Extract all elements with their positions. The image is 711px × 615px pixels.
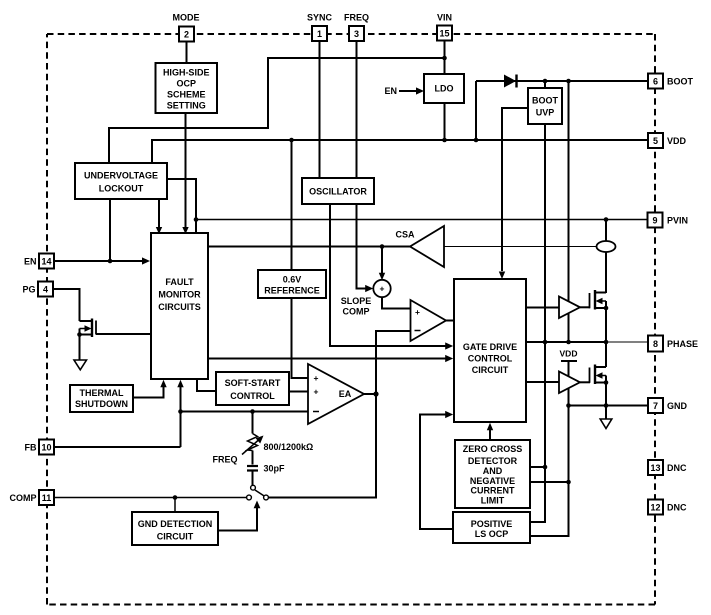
summer slope comp adder circle bbox=[373, 280, 390, 297]
svg-text:4: 4 bbox=[43, 284, 48, 294]
svg-text:0.6V: 0.6V bbox=[283, 274, 302, 284]
node BOOT rail to high-side driver junction bbox=[566, 79, 571, 84]
diode D1 bootstrap bbox=[504, 75, 517, 88]
block BOOT UVP bbox=[528, 88, 562, 124]
svg-text:SCHEME: SCHEME bbox=[167, 90, 206, 100]
svg-text:OSCILLATOR: OSCILLATOR bbox=[309, 186, 367, 196]
wire LS driver return to GND rail bbox=[568, 388, 570, 406]
wire LDO output to VDD rail bbox=[444, 103, 446, 140]
wire GATE DRIVE to HS driver bbox=[526, 307, 559, 309]
wire GND rail to GND pin 7 bbox=[569, 405, 649, 407]
pin 14 EN bbox=[24, 254, 54, 269]
wire EA output up to PWM comparator minus input bbox=[376, 331, 411, 394]
svg-text:LOCKOUT: LOCKOUT bbox=[99, 184, 144, 194]
svg-text:3: 3 bbox=[354, 29, 359, 39]
svg-text:PVIN: PVIN bbox=[667, 215, 688, 225]
block GND DETECTION CIRCUIT bbox=[132, 512, 218, 545]
wire FAULT MONITOR to PG MOSFET gate bbox=[96, 333, 151, 335]
node compensation branch junction bbox=[250, 409, 255, 414]
current sense element ellipse bbox=[597, 241, 616, 252]
pin 5 VDD bbox=[648, 133, 687, 148]
node ZC phase sense junction bbox=[543, 465, 548, 470]
node UVLO sense on PVIN line bbox=[194, 217, 199, 222]
pin 6 BOOT bbox=[648, 74, 694, 89]
block THERMAL SHUTDOWN bbox=[70, 385, 133, 412]
svg-text:CONTROL: CONTROL bbox=[468, 354, 513, 364]
ground symbol at PG MOSFET source bbox=[74, 360, 87, 370]
svg-text:VDD: VDD bbox=[560, 349, 578, 359]
transistor Q2 high-side MOSFET bbox=[590, 290, 609, 342]
label SLOPE COMP bbox=[341, 296, 372, 316]
block UNDERVOLTAGE LOCKOUT bbox=[75, 163, 167, 199]
svg-text:ZERO CROSS: ZERO CROSS bbox=[463, 444, 523, 454]
svg-text:FAULT: FAULT bbox=[165, 277, 194, 287]
svg-text:SETTING: SETTING bbox=[167, 101, 206, 111]
svg-text:FREQ: FREQ bbox=[212, 455, 237, 465]
node FB to EA minus junction bbox=[178, 409, 183, 414]
svg-text:5: 5 bbox=[653, 136, 658, 146]
svg-text:AND: AND bbox=[483, 466, 503, 476]
wire EN pin 14 to FAULT MONITOR with arrow bbox=[54, 257, 150, 264]
svg-text:15: 15 bbox=[439, 28, 449, 38]
svg-text:CONTROL: CONTROL bbox=[230, 391, 275, 401]
wire PVIN junction down to sense ellipse bbox=[605, 220, 607, 242]
svg-text:PG: PG bbox=[22, 284, 35, 294]
wire SYNC pin to OSCILLATOR bbox=[319, 41, 321, 178]
wire EA output down to switch bbox=[268, 394, 376, 498]
svg-text:800/1200kΩ: 800/1200kΩ bbox=[264, 442, 314, 452]
svg-text:PHASE: PHASE bbox=[667, 339, 698, 349]
block FAULT MONITOR CIRCUITS bbox=[151, 233, 208, 379]
svg-text:14: 14 bbox=[41, 256, 51, 266]
svg-text:POSITIVE: POSITIVE bbox=[471, 519, 513, 529]
wire summer to PWM comparator plus input bbox=[382, 297, 411, 308]
node diode branch on VDD rail bbox=[474, 138, 479, 143]
node BOOT UVP top junction bbox=[543, 79, 548, 84]
wire BOOT UVP left tap down into GATE DRIVE top bbox=[499, 108, 528, 279]
pin 1 SYNC bbox=[307, 12, 333, 41]
block 0.6V REFERENCE bbox=[258, 270, 326, 298]
wire LS driver output to gate bbox=[580, 381, 590, 383]
svg-text:EN: EN bbox=[384, 86, 397, 96]
wire VIN rail y128 to UVLO bbox=[109, 127, 269, 129]
svg-text:CIRCUIT: CIRCUIT bbox=[157, 532, 194, 542]
wire 0.6V reference to EA first plus input bbox=[292, 298, 309, 378]
svg-text:LIMIT: LIMIT bbox=[481, 495, 505, 505]
wire HIGH-SIDE OCP block to FAULT MONITOR top bbox=[182, 113, 188, 234]
svg-text:EN: EN bbox=[24, 256, 37, 266]
transistor Q1 PG open-drain MOSFET bbox=[77, 319, 96, 361]
svg-text:CURRENT: CURRENT bbox=[471, 486, 516, 496]
node EN line junction bbox=[108, 259, 113, 264]
svg-text:SOFT-START: SOFT-START bbox=[225, 378, 281, 388]
svg-text:+: + bbox=[415, 307, 420, 317]
node GND junction LS driver bbox=[566, 403, 571, 408]
pin 7 GND bbox=[648, 398, 688, 413]
ground symbol at GND rail bbox=[600, 406, 612, 429]
wire POSITIVE LS OCP to GATE DRIVE with arrow bbox=[420, 411, 453, 529]
pin 11 COMP bbox=[10, 490, 55, 505]
svg-text:LDO: LDO bbox=[435, 84, 454, 94]
svg-text:+: + bbox=[314, 373, 319, 383]
wire FAULT MONITOR to CSA output y246.5 bbox=[208, 246, 410, 248]
transistor Q3 low-side MOSFET bbox=[590, 342, 609, 406]
svg-text:UVP: UVP bbox=[536, 108, 555, 118]
node slope comp tap on CSA line bbox=[380, 244, 385, 249]
svg-text:8: 8 bbox=[653, 339, 658, 349]
node ZC negative current limit sense junction bbox=[566, 480, 571, 485]
node phase junction HS driver return bbox=[566, 340, 571, 345]
wire GND rail down to ZC and LS OCP sense bbox=[530, 406, 569, 537]
wire GND DETECTION to switch actuator arrow bbox=[218, 501, 260, 531]
pin 9 PVIN bbox=[648, 213, 689, 228]
op-amp EA error amplifier bbox=[308, 364, 364, 424]
node phase junction BOOT UVP bbox=[543, 340, 548, 345]
pin 12 DNC bbox=[648, 500, 687, 515]
svg-text:THERMAL: THERMAL bbox=[80, 388, 124, 398]
svg-text:11: 11 bbox=[42, 493, 52, 503]
svg-text:CIRCUITS: CIRCUITS bbox=[158, 302, 201, 312]
block HIGH-SIDE OCP SCHEME SETTING bbox=[156, 63, 218, 113]
node phase junction power FETs bbox=[604, 340, 609, 345]
wire BOOT UVP bottom down to phase node bbox=[544, 124, 546, 342]
wire BOOT rail y81 to BOOT pin 6 bbox=[476, 80, 648, 82]
svg-text:NEGATIVE: NEGATIVE bbox=[470, 476, 515, 486]
svg-text:LS OCP: LS OCP bbox=[475, 529, 509, 539]
IC boundary dashed box bbox=[47, 34, 655, 605]
svg-text:1: 1 bbox=[317, 29, 322, 39]
svg-text:SYNC: SYNC bbox=[307, 12, 333, 22]
wire BOOT rail into BOOT UVP top bbox=[544, 81, 546, 88]
svg-text:COMP: COMP bbox=[10, 493, 37, 503]
wire THERMAL SHUTDOWN to FAULT MONITOR with arrow bbox=[133, 380, 167, 398]
svg-text:10: 10 bbox=[41, 442, 51, 452]
block OSCILLATOR bbox=[302, 178, 374, 204]
wire SOFT-START to EA second plus input bbox=[289, 391, 308, 393]
wire FB pin 10 line bbox=[54, 446, 181, 448]
svg-text:HIGH-SIDE: HIGH-SIDE bbox=[163, 68, 210, 78]
wire ZERO CROSS block to GND sense line bbox=[530, 481, 569, 483]
wire UVLO bottom to EN line bbox=[109, 199, 111, 261]
svg-text:DETECTOR: DETECTOR bbox=[468, 456, 518, 466]
wire EA minus input line y411.5 bbox=[181, 411, 309, 413]
wire VIN rail drop x268 bbox=[267, 57, 269, 128]
svg-text:CSA: CSA bbox=[395, 230, 415, 240]
wire FREQ pin to OSCILLATOR bbox=[356, 41, 358, 178]
node GND detection tap on COMP line bbox=[173, 495, 178, 500]
svg-text:DNC: DNC bbox=[667, 463, 687, 473]
pin 15 VIN bbox=[437, 12, 452, 40]
buffer LS gate driver bbox=[559, 372, 580, 394]
pin 8 PHASE bbox=[648, 336, 698, 352]
svg-text:EA: EA bbox=[339, 389, 352, 399]
wire OSCILLATOR to slope comp summer with arrow bbox=[357, 204, 374, 292]
node VIN junction bbox=[442, 56, 447, 61]
wire BOOT rail down to HS driver top bbox=[568, 81, 570, 302]
block GATE DRIVE CONTROL CIRCUIT bbox=[454, 279, 526, 422]
wire GATE DRIVE to LS driver bbox=[526, 381, 559, 383]
svg-text:6: 6 bbox=[653, 76, 658, 86]
pin 2 MODE bbox=[173, 12, 200, 41]
wire phase to PHASE pin 8 bbox=[606, 341, 648, 343]
power symbol VDD for LS driver bbox=[560, 349, 578, 377]
svg-text:13: 13 bbox=[650, 463, 660, 473]
pin 3 FREQ bbox=[344, 12, 369, 41]
wire EA output stub bbox=[364, 393, 376, 395]
wire COMP pin 11 line bbox=[54, 497, 247, 499]
wire FB riser into FAULT MONITOR with arrow bbox=[177, 380, 183, 447]
block LDO bbox=[424, 74, 464, 103]
node GND junction LS FET source bbox=[604, 403, 609, 408]
pin 4 PG bbox=[22, 282, 53, 297]
resistor R1 800/1200k variable bbox=[242, 412, 264, 465]
switch S1 comp disconnect bbox=[247, 485, 269, 500]
capacitor C1 30pF bbox=[247, 466, 258, 485]
wire VIN pin down to LDO bbox=[444, 41, 446, 74]
svg-text:2: 2 bbox=[184, 29, 189, 39]
wire PG pin 4 to PG MOSFET drain bbox=[53, 289, 80, 321]
wire VDD to diode branch riser bbox=[475, 81, 477, 140]
wire UVLO bottom to FAULT MONITOR top arrow bbox=[156, 199, 162, 234]
wire PVIN line y219.5 to PVIN pin 9 bbox=[196, 219, 648, 221]
wire OSCILLATOR down and into GATE DRIVE with arrow bbox=[330, 204, 453, 350]
wire phase sense down to POSITIVE LS OCP bbox=[530, 342, 545, 522]
wire CSA tap down into slope comp summer with arrow bbox=[379, 247, 385, 281]
wire CSA input from current sense ellipse bbox=[444, 246, 597, 248]
svg-text:GND: GND bbox=[667, 401, 688, 411]
svg-text:COMP: COMP bbox=[343, 306, 370, 316]
wire COMP tap into GND DETECTION top bbox=[174, 498, 176, 513]
svg-text:OCP: OCP bbox=[176, 79, 196, 89]
pin 13 DNC bbox=[648, 460, 687, 475]
pin 10 FB bbox=[25, 440, 55, 455]
svg-text:SLOPE: SLOPE bbox=[341, 296, 372, 306]
node EA output junction bbox=[373, 391, 378, 396]
svg-text:REFERENCE: REFERENCE bbox=[264, 285, 320, 295]
op-amp CSA current sense amplifier bbox=[395, 226, 444, 267]
svg-text:FREQ: FREQ bbox=[344, 12, 369, 22]
svg-text:FB: FB bbox=[25, 442, 37, 452]
wire MODE pin to HIGH-SIDE OCP block bbox=[186, 41, 188, 63]
svg-text:+: + bbox=[314, 387, 319, 397]
svg-text:CIRCUIT: CIRCUIT bbox=[472, 365, 509, 375]
wire VDD rail y140 from UVLO tap to VDD pin 5 bbox=[152, 139, 648, 141]
op-amp PWM comparator bbox=[411, 300, 447, 341]
svg-text:MODE: MODE bbox=[173, 12, 200, 22]
label EN with arrow into LDO bbox=[384, 86, 424, 96]
svg-text:7: 7 bbox=[653, 401, 658, 411]
wire ZERO CROSS to GATE DRIVE bottom with arrow bbox=[487, 423, 493, 440]
wire VDD junction down to 0.6V reference bbox=[291, 140, 293, 270]
svg-text:9: 9 bbox=[652, 215, 657, 225]
wire VDD tap into UVLO top bbox=[151, 139, 153, 163]
wire ZERO CROSS block to phase sense line bbox=[530, 466, 545, 468]
svg-text:+: + bbox=[380, 284, 385, 294]
svg-text:VDD: VDD bbox=[667, 136, 687, 146]
wire phase rail from GATE DRIVE bbox=[526, 341, 606, 343]
wire HS driver bottom to phase bbox=[568, 313, 570, 342]
block SOFT-START CONTROL bbox=[216, 372, 289, 405]
wire HS driver output to gate bbox=[580, 306, 590, 308]
svg-text:GATE DRIVE: GATE DRIVE bbox=[463, 342, 517, 352]
wire sense ellipse down to HS FET drain bbox=[605, 252, 607, 293]
wire FAULT MONITOR to SOFT-START bbox=[197, 379, 216, 391]
wire VIN rail into UVLO top bbox=[108, 127, 110, 163]
svg-text:VIN: VIN bbox=[437, 12, 452, 22]
node PVIN to power stage junction bbox=[604, 217, 609, 222]
block POSITIVE LS OCP bbox=[453, 512, 530, 543]
svg-text:DNC: DNC bbox=[667, 502, 687, 512]
wire UVLO right tap to FAULT MONITOR top bbox=[167, 179, 196, 233]
node VDD to 0.6V reference junction bbox=[289, 138, 294, 143]
svg-text:12: 12 bbox=[650, 502, 660, 512]
wire VIN rail y58 bbox=[268, 57, 445, 59]
svg-text:SHUTDOWN: SHUTDOWN bbox=[75, 399, 128, 409]
svg-text:30pF: 30pF bbox=[264, 464, 286, 474]
svg-text:MONITOR: MONITOR bbox=[158, 290, 201, 300]
wire FAULT MONITOR to GATE DRIVE with arrow bbox=[208, 355, 453, 362]
node LDO output junction bbox=[442, 138, 447, 143]
wire PWM comparator output to GATE DRIVE bbox=[446, 320, 454, 322]
svg-text:BOOT: BOOT bbox=[532, 95, 559, 105]
svg-text:UNDERVOLTAGE: UNDERVOLTAGE bbox=[84, 171, 158, 181]
buffer HS gate driver bbox=[559, 297, 580, 319]
svg-text:BOOT: BOOT bbox=[667, 76, 694, 86]
block ZERO CROSS DETECTOR AND NEGATIVE CURRENT LIMIT bbox=[455, 440, 530, 508]
svg-text:GND DETECTION: GND DETECTION bbox=[138, 519, 213, 529]
